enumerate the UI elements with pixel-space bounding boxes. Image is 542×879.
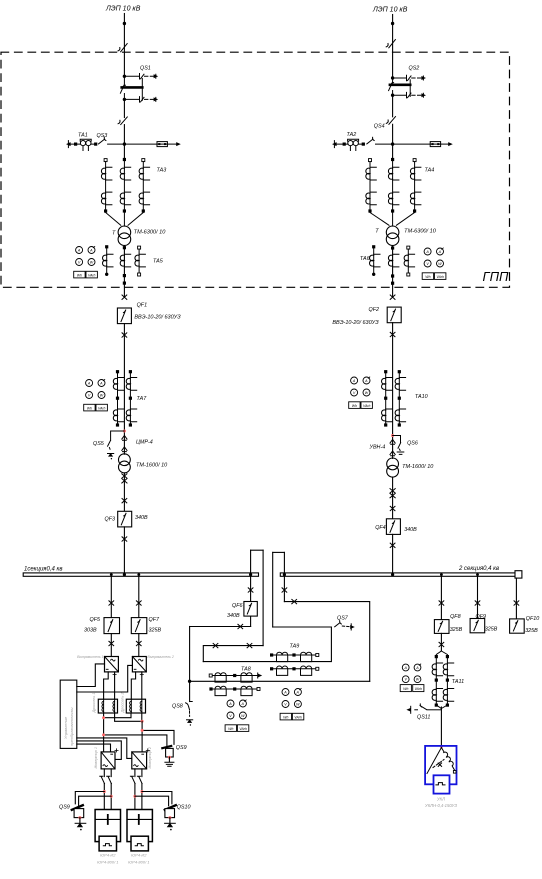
wire bus tie top link CD — [273, 551, 285, 553]
control cabinet box — [60, 680, 77, 748]
transformer T4 TM-1600/10 — [387, 458, 399, 477]
wire QF1 to TA7 — [123, 324, 125, 431]
current transformer TA4 right column — [396, 159, 421, 226]
svg-text:ТА1: ТА1 — [78, 132, 88, 138]
wire QF5 to rectifier 1 — [110, 634, 112, 657]
plug contact X above QF10 — [514, 601, 519, 605]
wire DC negative rail — [141, 721, 143, 752]
current transformer TA1 — [80, 139, 91, 150]
svg-text:QS1: QS1 — [140, 66, 151, 72]
svg-text:QS11: QS11 — [417, 715, 430, 721]
wire QS10 to arrow — [169, 818, 171, 823]
instruments kit right feeder upper — [422, 248, 446, 279]
wire bus2 to QF10 — [515, 578, 517, 619]
plug contact X above QF9 — [475, 601, 480, 605]
wire tie link lower B — [203, 646, 263, 662]
node bus2 junctions — [391, 573, 394, 576]
svg-text:2 секция0,4 кв: 2 секция0,4 кв — [458, 566, 499, 572]
current transformer TA9 lower row — [270, 666, 319, 675]
wire DC link chokes right pair — [115, 713, 143, 722]
wire rectifier2 right output — [141, 672, 143, 699]
svg-text:QF7: QF7 — [149, 617, 160, 623]
node dots on left feeder below TA5 — [123, 274, 126, 277]
node top of capacitor unit (red) — [440, 745, 443, 748]
svg-text:340В: 340В — [227, 613, 240, 619]
svg-text:QS3: QS3 — [97, 133, 108, 139]
svg-text:Т: Т — [112, 230, 116, 236]
instruments kit near TA8 — [225, 700, 249, 731]
inverter U3 — [101, 752, 115, 769]
instruments kit left feeder upper — [74, 247, 98, 278]
current transformer TA5 middle — [120, 254, 130, 267]
svg-text:Управление: Управление — [63, 716, 68, 739]
contact blades inverter2 — [130, 776, 142, 783]
polarity mark inverter2 — [146, 749, 149, 752]
node dots on right feeder below TA6 — [391, 274, 394, 277]
current transformer TA6 right branch — [404, 246, 414, 276]
svg-text:QF1: QF1 — [137, 303, 147, 309]
wire QS9 to ground — [168, 757, 170, 762]
wire left feeder to TA row junction — [123, 125, 125, 159]
wire bus tie riser C — [272, 552, 274, 627]
node on DC positive rail (red) — [102, 733, 105, 736]
node on DC negative rail (red) — [141, 729, 144, 732]
instruments kit near TA9 — [280, 689, 304, 720]
plug contact X below QF8 — [439, 642, 444, 646]
svg-text:QF2: QF2 — [369, 307, 379, 313]
circuit breaker QF9 — [470, 619, 485, 633]
plug contact X on tie link 2 — [213, 643, 218, 647]
wire control to rectifier1 gate — [77, 664, 105, 687]
svg-text:ТА7: ТА7 — [137, 396, 148, 402]
svg-text:325В: 325В — [149, 627, 162, 633]
node junction before TM-1600 right (red) — [391, 434, 394, 437]
node junction right feeder tap row — [391, 142, 394, 145]
smoothing reactor L1 — [98, 699, 117, 713]
svg-text:QF6: QF6 — [232, 603, 242, 609]
svg-text:УВН-4: УВН-4 — [369, 444, 386, 450]
arrow left end of right tap row — [332, 141, 337, 148]
plug contact X below QF2 — [390, 332, 395, 336]
rectifier U2 — [132, 657, 146, 672]
svg-text:ТА4: ТА4 — [425, 168, 435, 174]
earthing switch QS9 body — [166, 748, 174, 757]
svg-text:QS7: QS7 — [337, 615, 349, 621]
svg-text:325В: 325В — [525, 628, 538, 634]
svg-text:303В: 303В — [84, 627, 97, 633]
svg-text:ВВЭ-10-20/ 630УЗ: ВВЭ-10-20/ 630УЗ — [332, 320, 379, 326]
node bus1 junctions — [123, 573, 126, 576]
wire bus1 to QF5 — [110, 577, 112, 618]
wire QF2 to TA10 — [392, 323, 394, 436]
wire left feeder between QS1 and line blade — [123, 99, 125, 117]
svg-text:Дроссель 2: Дроссель 2 — [120, 692, 124, 714]
transformer T3 TM-1600/10 — [119, 454, 131, 473]
wire right feeder to TA row junction — [392, 124, 394, 158]
disconnector QS1 — [120, 66, 158, 103]
node below QS9 (red) — [168, 756, 171, 759]
svg-text:1секция0,4 кв: 1секция0,4 кв — [24, 567, 62, 573]
plug contact X below GPP box left — [122, 295, 127, 299]
svg-text:ТА11: ТА11 — [452, 679, 464, 685]
current transformer TA8 lower row — [209, 686, 260, 695]
circuit breaker QF5 — [104, 618, 120, 634]
svg-text:QS2: QS2 — [409, 66, 420, 72]
svg-text:ТА3: ТА3 — [157, 168, 167, 174]
plug contact X on D link — [292, 599, 297, 603]
plug contact X above QF7 — [136, 601, 141, 605]
disconnect blade in left feeder line — [118, 117, 127, 125]
wire inverter2 outputs — [135, 769, 142, 810]
plug contact X below QF3 — [122, 537, 127, 541]
svg-text:QS6: QS6 — [407, 440, 418, 446]
svg-text:A: A — [415, 666, 419, 670]
svg-text:QF5: QF5 — [90, 617, 101, 623]
current transformer TA2 — [348, 139, 359, 150]
svg-text:ЮР4-И2: ЮР4-И2 — [131, 852, 147, 857]
node squares around TA2 — [343, 143, 346, 146]
current transformer TA11 right branch — [441, 651, 453, 709]
svg-text:ТА6: ТА6 — [360, 256, 370, 262]
svg-text:ТА10: ТА10 — [415, 394, 428, 400]
svg-text:ЮР4-И2: ЮР4-И2 — [100, 852, 116, 857]
wire below transformer T2 — [392, 246, 394, 297]
double plug mark below T4 — [390, 489, 395, 498]
circuit breaker QF3 — [118, 511, 132, 527]
current transformer TA3 middle column — [120, 158, 130, 226]
double plug mark below T3 — [122, 474, 127, 483]
wire QF7 to rectifier 2 — [138, 634, 140, 657]
node junction on QS8 drop — [188, 680, 191, 683]
circuit breaker QF6 — [244, 602, 257, 617]
svg-text:Дроссель 1: Дроссель 1 — [92, 693, 96, 714]
current transformer TA6 left branch — [370, 245, 380, 276]
wire junction to T3 — [123, 431, 125, 454]
disconnector QS3 blade — [99, 137, 106, 144]
plug contact X below QF5 — [109, 641, 114, 645]
svg-text:Выпрямитель 2: Выпрямитель 2 — [147, 655, 173, 659]
plug contact X below GPP box right — [390, 295, 395, 299]
wire fuse2 to arrow — [441, 143, 449, 145]
disconnector QS4 blade — [367, 137, 374, 144]
node below transformer T2 — [391, 246, 394, 249]
svg-text:ЦМР-4: ЦМР-4 — [136, 439, 153, 445]
instruments kit near TA11 — [400, 664, 424, 692]
current transformer TA4 left column — [366, 159, 389, 226]
svg-text:ЛЭП 10 кВ: ЛЭП 10 кВ — [105, 6, 141, 13]
current transformer TA5 right branch — [135, 246, 145, 276]
wire tie link D to down riser — [284, 602, 369, 682]
smoothing reactor L2 — [126, 699, 145, 713]
wire junction to T4 — [392, 436, 394, 459]
current transformer TA6 middle — [388, 254, 398, 267]
svg-text:Выпрямитель 1: Выпрямитель 1 — [77, 655, 103, 659]
plug connector chevrons left — [122, 436, 127, 441]
svg-text:УКЛ: УКЛ — [437, 797, 445, 802]
arrow down QS5 termination — [108, 454, 114, 460]
wire DC rail to earthing switch left — [104, 735, 167, 746]
current transformer TA9 upper row — [270, 652, 319, 661]
wire right feeder between QS2 and line blade — [392, 95, 394, 117]
current transformer TA4 middle column — [388, 158, 398, 226]
wire rectifier1 left output — [104, 672, 109, 699]
node DC junction (red) — [102, 716, 105, 719]
disconnector QS5 branch — [108, 431, 125, 451]
plug contact X above QF5 — [109, 601, 114, 605]
arrow right end of right tap row — [448, 142, 453, 146]
circuit breaker QF10 — [510, 619, 525, 633]
current transformer TA7 right branch — [126, 370, 136, 427]
plug contact X riser A — [248, 588, 253, 592]
plug contact X above QF8 — [439, 601, 444, 605]
wire QF3 to bus 1 — [123, 527, 125, 573]
disconnect blade in right feeder line — [386, 117, 395, 125]
node junction left feeder tap row — [123, 142, 126, 145]
instruments kit left feeder lower — [84, 380, 108, 411]
plug contact X riser D — [282, 588, 287, 592]
current transformer TA10 left branch — [382, 370, 392, 427]
svg-text:УКЛН-0,4-150УЗ: УКЛН-0,4-150УЗ — [425, 803, 457, 808]
bus 2 end terminator square — [515, 571, 522, 578]
disconnect blade on right feeder at boundary — [386, 40, 395, 48]
svg-text:преобразователями: преобразователями — [69, 707, 74, 746]
svg-text:Инвертор 1: Инвертор 1 — [94, 747, 98, 768]
wire QF4 to bus 2 — [392, 534, 394, 573]
circuit breaker QF8 — [434, 620, 449, 634]
svg-text:ТА8: ТА8 — [241, 667, 251, 673]
wire below transformer T1 — [123, 246, 125, 297]
svg-text:W: W — [416, 678, 420, 682]
node dot on right feeder — [391, 22, 394, 25]
plug contact X below QF1 — [122, 333, 127, 337]
plug contact X on tie link 1 — [247, 643, 252, 647]
wire bus1 to QF7 — [138, 577, 140, 618]
svg-text:ЮР4-800/ 1: ЮР4-800/ 1 — [97, 859, 118, 864]
filter inner blue box — [434, 775, 450, 793]
svg-text:325В: 325В — [485, 626, 498, 632]
wire to QS9L — [75, 792, 111, 806]
svg-text:QF8: QF8 — [450, 614, 460, 620]
arrow left end of QS11 — [406, 708, 411, 712]
svg-text:QS9: QS9 — [59, 804, 70, 810]
inverter U4 — [132, 752, 147, 769]
wire T4 to QF4 — [392, 477, 394, 519]
plug contact X on QF6 output — [238, 624, 243, 628]
svg-text:325В: 325В — [450, 627, 463, 633]
bus section 1 0.4kV — [23, 573, 258, 576]
svg-text:QF3: QF3 — [105, 516, 115, 522]
wire rectifier2 left output — [131, 672, 135, 699]
capacitor unit UKL blue box — [425, 746, 456, 784]
fuse FU1 — [157, 142, 167, 147]
svg-text:ЛЭП 10 кВ: ЛЭП 10 кВ — [372, 7, 408, 14]
rectifier U1 — [105, 657, 119, 672]
disconnect blade on left feeder at boundary — [118, 44, 127, 52]
wire to QS10 — [135, 792, 172, 806]
wire bus tie riser D — [283, 552, 285, 601]
wire DC link chokes left pair — [104, 713, 131, 718]
current transformer TA3 right column — [128, 159, 150, 226]
wire QS8 drop — [189, 627, 191, 702]
svg-text:340В: 340В — [404, 527, 417, 533]
wire bus tie riser B — [262, 550, 264, 645]
wire left feeder main upper — [123, 14, 125, 76]
svg-text:ЮР4-800/ 1: ЮР4-800/ 1 — [128, 859, 149, 864]
bus section 2 0.4kV — [280, 573, 516, 576]
wire DC rail to earthing switch right — [142, 730, 174, 744]
node squares around TA1 — [74, 143, 77, 146]
arrow down QS9L termination — [75, 823, 86, 830]
arrow QS7 termination — [350, 625, 355, 629]
svg-text:ВВЭ-10-20/ 630УЗ: ВВЭ-10-20/ 630УЗ — [134, 314, 181, 320]
polarity mark rectifier2 — [140, 673, 143, 676]
plug contact X above QF3 — [122, 499, 127, 503]
current transformer TA10 right branch — [395, 370, 405, 427]
node DC junction 2 (red) — [141, 720, 144, 723]
node below transformer T1 — [123, 246, 126, 249]
disconnector QS2 — [389, 66, 426, 98]
wire TA11 to capacitor unit — [440, 707, 442, 747]
svg-text:ТА9: ТА9 — [290, 643, 300, 649]
filter waveform symbol — [436, 783, 445, 785]
wire fuse to arrow — [167, 143, 177, 145]
wire bus tie top link AB — [251, 549, 264, 551]
svg-text:Инвертор 2: Инвертор 2 — [148, 746, 152, 768]
svg-text:QS9: QS9 — [176, 745, 187, 751]
wire bus tie riser A — [250, 550, 252, 626]
svg-text:340В: 340В — [135, 515, 148, 521]
svg-text:QF4: QF4 — [375, 525, 385, 531]
plug contact X below QF4 — [390, 543, 395, 547]
arrow TA8 upper row end — [258, 674, 263, 678]
wire long link to QS8 node — [190, 680, 370, 682]
svg-text:QS8: QS8 — [172, 703, 183, 709]
svg-text:VArh: VArh — [415, 687, 422, 691]
fuse FU2 — [430, 142, 440, 147]
current transformer TA7 left branch — [113, 370, 123, 427]
svg-text:ТА2: ТА2 — [347, 132, 357, 138]
current transformer TA5 left branch — [103, 245, 113, 276]
wire control to rectifier2 gate — [77, 665, 133, 692]
GPP dashed boundary box — [1, 52, 510, 287]
node dots inverter outputs (red) — [103, 790, 106, 793]
wire QF6 output left — [190, 626, 251, 628]
svg-text:ТМ-1600/ 10: ТМ-1600/ 10 — [136, 462, 168, 468]
wire incoming measuring tap row right — [334, 143, 430, 145]
arrow left end of tap row — [66, 141, 71, 148]
instruments kit right feeder lower — [349, 377, 373, 408]
wire T3 to QF3 — [123, 473, 125, 511]
circuit breaker QF1 — [117, 308, 131, 324]
disconnector QS11 branch — [411, 704, 442, 713]
node below QS10 (red) — [168, 816, 171, 819]
wire tie cross link — [203, 627, 331, 662]
svg-text:ТМ-6300/ 10: ТМ-6300/ 10 — [404, 228, 437, 234]
transformer T2 TM-6300/10 — [386, 226, 399, 246]
plug contact X above QF4 — [390, 506, 395, 510]
earthing switch QS6 branch — [393, 436, 401, 451]
node below QS9L (red) — [78, 816, 81, 819]
wire rectifier1 right output — [114, 672, 116, 699]
electrolysis load 2 box — [127, 810, 152, 851]
wire right feeder main upper — [392, 15, 394, 77]
plug contact X below QF7 — [136, 641, 141, 645]
disconnector QS10 blade — [165, 805, 176, 810]
wire QF8 to TA11 — [440, 633, 442, 651]
arrow down QS8 termination — [187, 720, 193, 726]
contact blades inverter1 — [100, 776, 112, 783]
earthing switch QS9 blade — [162, 746, 171, 748]
polarity mark inverter1 — [115, 749, 118, 752]
arrow down QS10 termination — [165, 823, 176, 830]
wire control to inverter1 input — [77, 744, 111, 752]
current transformer TA3 left column — [101, 159, 120, 226]
wire control to inverter1 gate — [77, 741, 122, 760]
current transformer TA11 left branch — [432, 651, 442, 709]
wire bus2 to QF8 — [440, 577, 442, 620]
ground symbol QS9 — [165, 762, 174, 766]
disconnector QS10 body — [165, 809, 175, 818]
svg-text:QS4: QS4 — [374, 123, 385, 129]
wire control to inverter2 gate — [77, 738, 132, 759]
current transformer TA8 upper row — [209, 673, 258, 682]
disconnector QS9L body — [74, 809, 84, 818]
svg-text:A: A — [403, 666, 407, 670]
transformer T1 TM-6300/10 — [118, 226, 131, 246]
ground symbol QS6 — [397, 452, 404, 454]
wire DC positive rail — [103, 713, 105, 752]
node junction before TM-1600 left (red) — [123, 430, 126, 433]
wire inverter1 outputs — [104, 769, 111, 810]
svg-text:QS10: QS10 — [177, 804, 191, 810]
capacitor unit internal symbol — [427, 748, 456, 774]
svg-text:Wh: Wh — [403, 687, 408, 691]
disconnector QS7 blade — [335, 621, 352, 630]
circuit breaker QF7 — [131, 618, 147, 634]
wire QS9L to arrow — [79, 818, 81, 823]
svg-text:QS5: QS5 — [93, 441, 105, 447]
node dot on left feeder — [123, 22, 126, 25]
arrow right end of tap row — [176, 142, 181, 146]
wire bus2 to QF9 — [477, 577, 479, 619]
svg-text:Т: Т — [375, 228, 379, 234]
svg-text:ТА5: ТА5 — [153, 258, 164, 264]
wire incoming measuring tap row left — [68, 143, 157, 145]
polarity mark rectifier1 — [113, 673, 116, 676]
disconnector QS9L blade — [72, 805, 83, 810]
svg-text:ТМ-6300/ 10: ТМ-6300/ 10 — [134, 229, 167, 235]
plug connector chevrons right — [390, 440, 395, 445]
svg-text:QF10: QF10 — [526, 616, 539, 622]
disconnector QS8 blade — [186, 702, 193, 717]
svg-text:ТМ-1600/ 10: ТМ-1600/ 10 — [402, 464, 434, 470]
circuit breaker QF2 — [387, 307, 401, 323]
svg-text:ГПП: ГПП — [483, 269, 509, 284]
circuit breaker QF4 — [386, 519, 400, 535]
electrolysis load 1 box — [95, 810, 120, 851]
